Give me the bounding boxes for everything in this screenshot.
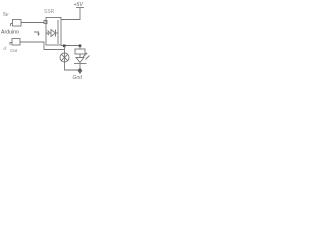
svg-text:SSR: SSR	[44, 9, 55, 15]
svg-text:Gnd: Gnd	[73, 75, 83, 81]
junction node C	[79, 69, 82, 72]
wire lamp to ground	[65, 62, 81, 70]
svg-text:Out: Out	[10, 48, 18, 53]
arrows inside U1	[48, 31, 50, 36]
wire +5V to U1	[61, 8, 80, 20]
wire to lamp	[64, 46, 66, 53]
power +5V bar	[76, 7, 84, 9]
wire R1 to LED	[79, 54, 81, 58]
wire arrow marker	[34, 32, 39, 35]
arrowhead	[37, 34, 40, 37]
LED arrows	[83, 53, 90, 60]
svg-text:Arduino: Arduino	[1, 30, 19, 36]
transistor line inside U1	[57, 20, 59, 44]
LED D2	[76, 58, 84, 63]
junction node A	[63, 45, 66, 48]
junction node B	[79, 45, 82, 48]
svg-text:5v: 5v	[3, 12, 9, 18]
wire P1 to U1 input	[21, 22, 44, 24]
diode D1 inside U1	[46, 32, 51, 34]
Arduino pin header P2	[12, 39, 20, 46]
wire U1 output	[61, 45, 80, 47]
ground arrow	[79, 70, 81, 71]
resistor R1	[75, 49, 85, 54]
Arduino pin header P1	[13, 20, 22, 27]
wire node B to R1	[79, 46, 81, 49]
wire P2 underpass to lamp	[20, 42, 65, 50]
wire LED to ground	[79, 64, 81, 70]
pin square U1 pin1	[44, 21, 47, 24]
lamp LA1	[60, 53, 69, 62]
optocoupler U1 box	[46, 18, 61, 46]
